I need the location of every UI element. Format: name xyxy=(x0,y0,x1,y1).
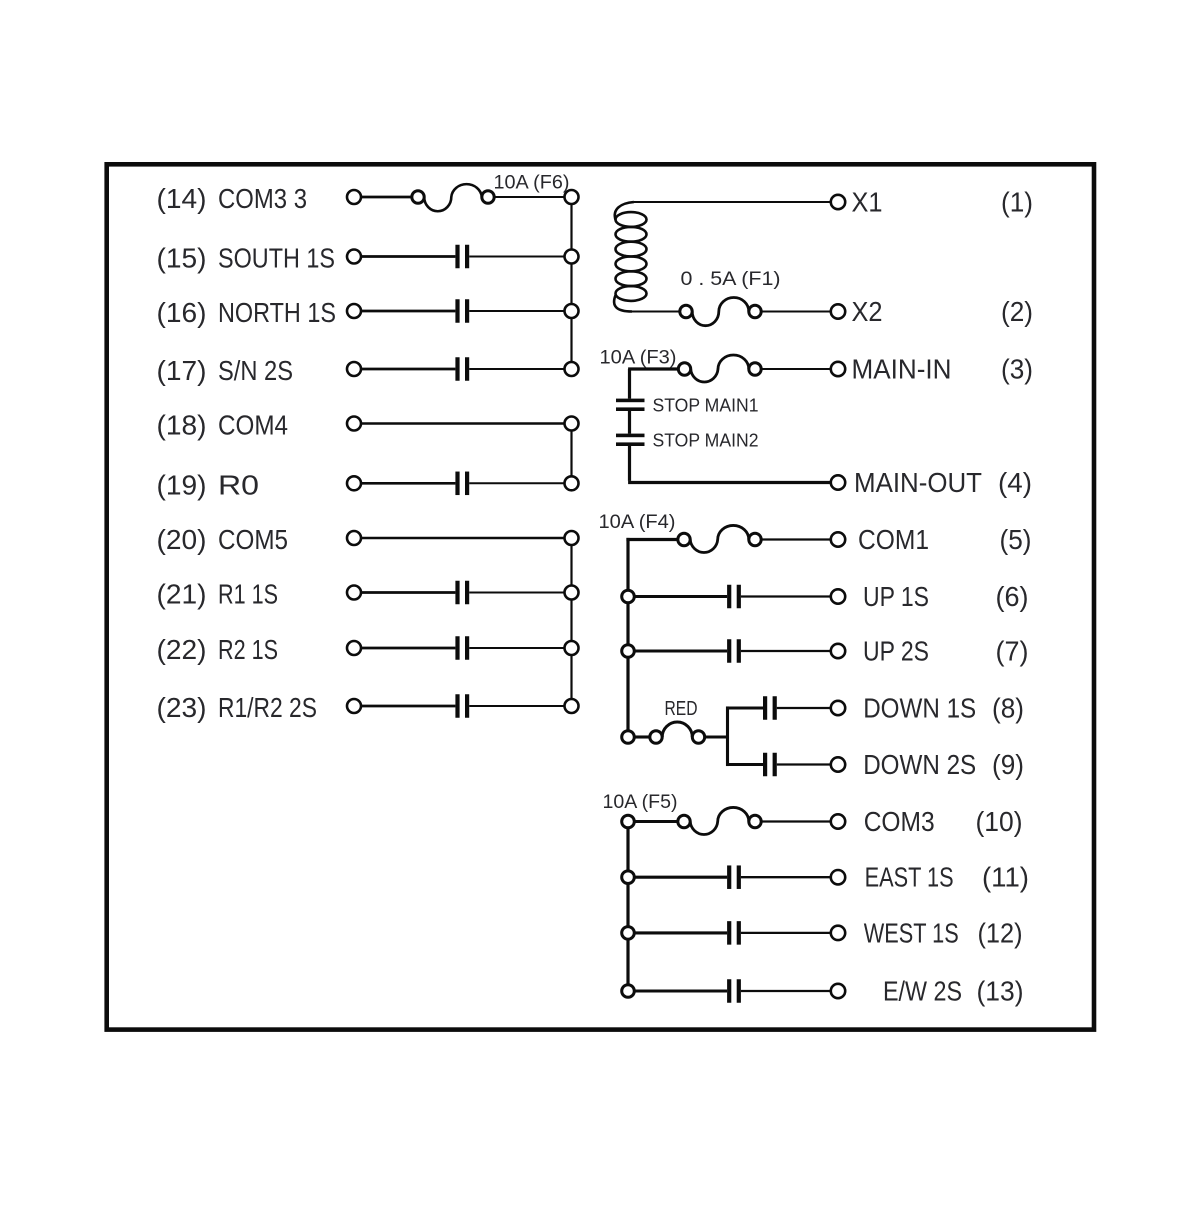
svg-text:(18): (18) xyxy=(157,410,207,441)
wire xyxy=(469,705,564,707)
svg-text:(6): (6) xyxy=(996,581,1029,612)
wire COM1 feed xyxy=(626,538,830,541)
node (17) junction xyxy=(565,362,579,376)
terminal (3) MAIN-IN xyxy=(831,354,1033,385)
node (14) junction xyxy=(565,190,579,204)
terminal (11) EAST 1S xyxy=(831,862,1029,893)
terminal (4) MAIN-OUT xyxy=(831,467,1032,498)
wire xyxy=(741,876,831,878)
wire xyxy=(728,706,764,709)
wire xyxy=(361,705,455,708)
svg-text:(13): (13) xyxy=(977,976,1024,1007)
svg-text:(7): (7) xyxy=(996,636,1029,667)
svg-text:DOWN 2S: DOWN 2S xyxy=(863,749,976,780)
svg-text:(15): (15) xyxy=(157,243,207,274)
node bus WEST 1S xyxy=(622,927,635,940)
svg-text:(16): (16) xyxy=(157,297,207,328)
node (20) junction xyxy=(565,531,579,545)
svg-text:WEST 1S: WEST 1S xyxy=(864,917,959,948)
wire xyxy=(361,368,455,371)
terminal (18) COM4 xyxy=(157,410,362,441)
wire xyxy=(361,310,455,313)
svg-text:SOUTH 1S: SOUTH 1S xyxy=(218,243,335,274)
contact WEST 1S xyxy=(727,921,741,945)
wire xyxy=(741,932,831,934)
terminal (22) R2 1S xyxy=(157,634,362,665)
wire MAIN vertical branch xyxy=(628,369,631,399)
contact SOUTH 1S xyxy=(455,245,469,269)
wire xyxy=(469,310,564,312)
node bus UP 2S xyxy=(622,645,635,658)
svg-text:10A (F4): 10A (F4) xyxy=(599,512,676,533)
node bus E/W 2S xyxy=(622,985,635,998)
terminal (23) R1/R2 2S xyxy=(157,692,362,723)
contact DOWN 2S xyxy=(763,753,777,777)
wire xyxy=(728,763,764,766)
node bus UP 1S xyxy=(622,590,635,603)
fuse F6 10A xyxy=(412,173,570,212)
svg-text:(17): (17) xyxy=(157,355,207,386)
wire xyxy=(777,763,831,765)
svg-text:MAIN-IN: MAIN-IN xyxy=(852,354,952,385)
wire xyxy=(628,446,831,483)
svg-text:STOP MAIN1: STOP MAIN1 xyxy=(653,395,759,416)
wire xyxy=(361,196,412,199)
svg-text:(9): (9) xyxy=(992,749,1024,780)
terminal (19) R0 xyxy=(157,469,362,500)
wire xyxy=(634,931,727,934)
svg-text:(10): (10) xyxy=(976,806,1023,837)
wire xyxy=(469,592,564,594)
node (16) junction xyxy=(565,304,579,318)
terminal (1) X1 xyxy=(831,187,1033,218)
wire xyxy=(634,876,727,879)
svg-text:(23): (23) xyxy=(157,692,207,723)
node bus COM3 xyxy=(622,815,635,828)
fuse RED xyxy=(650,698,705,743)
svg-text:(3): (3) xyxy=(1001,354,1033,385)
contact E/W 2S xyxy=(727,979,741,1003)
fuse F1 0.5A xyxy=(680,269,781,326)
svg-text:EAST 1S: EAST 1S xyxy=(865,862,954,893)
terminal (6) UP 1S xyxy=(831,581,1029,612)
wire xyxy=(361,591,455,594)
svg-text:NORTH 1S: NORTH 1S xyxy=(218,297,336,328)
svg-text:STOP MAIN2: STOP MAIN2 xyxy=(653,430,759,451)
svg-text:(2): (2) xyxy=(1001,296,1033,327)
wire xyxy=(741,650,831,652)
svg-text:COM4: COM4 xyxy=(218,410,288,441)
terminal (9) DOWN 2S xyxy=(831,749,1024,780)
wire bus rows 18-19 xyxy=(570,431,572,477)
wire COM3 feed xyxy=(634,820,831,823)
node (23) junction xyxy=(565,699,579,713)
capacitor contact STOP MAIN2 xyxy=(616,430,759,451)
node bus RED junction xyxy=(622,731,635,744)
terminal (5) COM1 xyxy=(831,524,1032,555)
wire xyxy=(361,482,455,485)
contact R1 1S xyxy=(455,581,469,605)
svg-text:UP 2S: UP 2S xyxy=(863,636,929,667)
svg-text:(4): (4) xyxy=(998,467,1032,498)
svg-text:(12): (12) xyxy=(978,917,1023,948)
wire xyxy=(469,647,564,649)
svg-text:R0: R0 xyxy=(218,469,259,500)
terminal (7) UP 2S xyxy=(831,636,1029,667)
contact EAST 1S xyxy=(727,865,741,889)
terminal (8) DOWN 1S xyxy=(831,693,1024,724)
wire xyxy=(777,707,831,709)
fuse F5 10A xyxy=(603,792,762,834)
svg-text:UP 1S: UP 1S xyxy=(863,581,929,612)
node (22) junction xyxy=(565,641,579,655)
contact UP 1S xyxy=(727,585,741,609)
terminal (17) S/N 2S xyxy=(157,355,362,386)
wire xyxy=(761,368,831,370)
contact R2 1S xyxy=(455,636,469,660)
svg-text:(8): (8) xyxy=(992,693,1024,724)
coil L1 transformer winding xyxy=(614,202,646,312)
node (21) junction xyxy=(565,586,579,600)
wire RED to branch xyxy=(705,706,728,766)
wire bus F4 xyxy=(626,538,629,731)
svg-text:R1/R2 2S: R1/R2 2S xyxy=(218,692,317,723)
svg-text:X1: X1 xyxy=(852,187,883,218)
wire xyxy=(634,735,650,738)
svg-text:S/N 2S: S/N 2S xyxy=(218,355,293,386)
terminal (15) SOUTH 1S xyxy=(157,243,362,274)
svg-text:10A (F5): 10A (F5) xyxy=(603,792,678,813)
svg-text:E/W 2S: E/W 2S xyxy=(883,976,962,1007)
svg-text:R2 1S: R2 1S xyxy=(218,634,278,665)
svg-text:(22): (22) xyxy=(157,634,207,665)
svg-text:COM5: COM5 xyxy=(218,524,288,555)
contact DOWN 1S xyxy=(763,696,777,720)
wire xyxy=(632,311,680,313)
node (18) junction xyxy=(565,417,579,431)
svg-text:COM3: COM3 xyxy=(864,806,935,837)
wire xyxy=(741,595,831,597)
terminal (10) COM3 xyxy=(831,806,1023,837)
svg-text:COM3 3: COM3 3 xyxy=(218,183,307,214)
wire xyxy=(361,537,565,539)
wire xyxy=(469,368,564,370)
wire xyxy=(361,647,455,650)
wire xyxy=(761,311,831,313)
wire bus F5 xyxy=(626,828,629,985)
svg-text:10A (F3): 10A (F3) xyxy=(600,348,677,369)
svg-text:RED: RED xyxy=(665,698,698,720)
terminal (2) X2 xyxy=(831,296,1033,327)
wire bus rows 20-23 xyxy=(570,545,572,700)
terminal (13) E/W 2S xyxy=(831,976,1024,1007)
terminal (21) R1 1S xyxy=(157,579,362,610)
svg-text:0 . 5A (F1): 0 . 5A (F1) xyxy=(681,269,781,290)
wire MAIN-IN stub xyxy=(628,367,678,370)
svg-text:DOWN 1S: DOWN 1S xyxy=(863,693,976,724)
wire xyxy=(634,989,727,992)
wire xyxy=(361,422,565,424)
svg-text:(14): (14) xyxy=(157,183,207,214)
wire xyxy=(634,595,727,598)
svg-text:(19): (19) xyxy=(157,469,207,500)
svg-text:(11): (11) xyxy=(982,862,1029,893)
contact UP 2S xyxy=(727,639,741,663)
contact R0 xyxy=(455,472,469,496)
svg-text:COM1: COM1 xyxy=(858,524,929,555)
svg-text:MAIN-OUT: MAIN-OUT xyxy=(854,467,982,498)
wire xyxy=(634,649,727,652)
terminal (20) COM5 xyxy=(157,524,362,555)
contact S/N 2S xyxy=(455,357,469,381)
svg-text:(1): (1) xyxy=(1001,187,1033,218)
wire bus rows 14-17 xyxy=(570,204,572,362)
svg-text:(20): (20) xyxy=(157,524,207,555)
wire xyxy=(494,196,564,198)
wire xyxy=(469,482,564,484)
svg-text:X2: X2 xyxy=(852,296,883,327)
fuse F4 10A xyxy=(599,512,762,552)
wire xyxy=(628,411,631,434)
svg-text:(21): (21) xyxy=(157,579,207,610)
svg-text:10A (F6): 10A (F6) xyxy=(494,173,570,194)
node bus EAST 1S xyxy=(622,871,635,884)
wire xyxy=(741,990,831,992)
node (19) junction xyxy=(565,476,579,490)
svg-text:R1 1S: R1 1S xyxy=(218,579,278,610)
wire xyxy=(634,201,831,203)
svg-text:(5): (5) xyxy=(1000,524,1032,555)
contact NORTH 1S xyxy=(455,299,469,323)
terminal (16) NORTH 1S xyxy=(157,297,362,328)
wire xyxy=(361,255,455,258)
fuse F3 10A xyxy=(600,348,762,382)
terminal (12) WEST 1S xyxy=(831,917,1023,948)
node (15) junction xyxy=(565,250,579,264)
terminal (14) COM3 3 xyxy=(157,183,362,214)
contact R1/R2 2S xyxy=(455,694,469,718)
capacitor contact STOP MAIN1 xyxy=(616,395,759,416)
wire xyxy=(469,256,564,258)
